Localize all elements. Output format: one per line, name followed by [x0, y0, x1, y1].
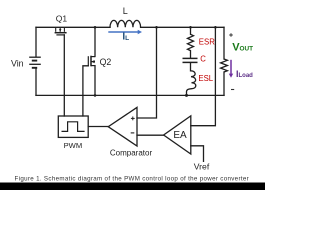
- svg-text:ESR: ESR: [199, 37, 215, 46]
- svg-text:ESL: ESL: [198, 74, 213, 83]
- svg-text:Vref: Vref: [194, 162, 210, 172]
- op-amp comparator: [108, 107, 137, 146]
- arrow IL (blue): [108, 30, 142, 35]
- wire Q2 source: [94, 66, 96, 96]
- wire battery to bottom rail: [35, 68, 37, 95]
- svg-text:C: C: [200, 54, 206, 63]
- capacitor C: [183, 58, 198, 62]
- arrow ILoad (purple): [229, 60, 233, 78]
- comparator plus input sign: [131, 117, 135, 121]
- svg-text:Q2: Q2: [100, 57, 112, 67]
- transistor Q2: [88, 56, 95, 67]
- svg-text:Comparator: Comparator: [110, 148, 153, 157]
- comparator minus input sign: [131, 132, 135, 134]
- transistor Q1 arrow: [59, 29, 61, 32]
- wire Q2 gate down to PWM: [83, 66, 88, 116]
- label plus at Vout: [229, 33, 233, 37]
- svg-text:PWM: PWM: [64, 141, 83, 150]
- wire load branch top: [223, 27, 225, 59]
- node dots: [94, 26, 97, 29]
- wire top rail left segment: [36, 26, 110, 28]
- svg-text:Q1: Q1: [56, 13, 68, 23]
- wire top rail right segment: [141, 26, 224, 28]
- wire feedback vertical to EA: [191, 27, 216, 125]
- PWM pulse symbol: [62, 122, 85, 132]
- wire comparator plus riser from top rail: [137, 27, 157, 118]
- battery Vin: [29, 57, 41, 68]
- label minus at Vout: [231, 89, 234, 91]
- op-amp EA: [164, 116, 191, 154]
- svg-text:Vin: Vin: [11, 58, 24, 68]
- inductor ESL: [187, 62, 196, 95]
- inductor L: [110, 20, 141, 27]
- transistor Q1: [55, 27, 67, 35]
- svg-text:L: L: [123, 6, 128, 16]
- svg-text:EA: EA: [173, 130, 187, 141]
- wire EA to Vref: [191, 146, 204, 162]
- wire load branch bottom: [223, 72, 225, 95]
- wire left vertical to battery: [35, 27, 37, 56]
- caption black bar: [0, 183, 265, 191]
- wire comparator output to PWM: [88, 126, 108, 128]
- resistor load: [221, 59, 228, 72]
- wire bottom rail: [36, 94, 224, 96]
- PWM block: [58, 116, 88, 137]
- resistor ESR: [188, 34, 194, 58]
- wire Q1 gate down to PWM: [63, 35, 65, 116]
- wire output capacitor branch top: [190, 27, 192, 34]
- svg-text:Figure 1. Schematic diagram o: Figure 1. Schematic diagram of the PWM c…: [15, 176, 250, 183]
- wire EA output to comparator minus: [137, 134, 164, 136]
- transistor Q2 arrow: [91, 60, 94, 63]
- wire Q2 drain: [94, 27, 96, 56]
